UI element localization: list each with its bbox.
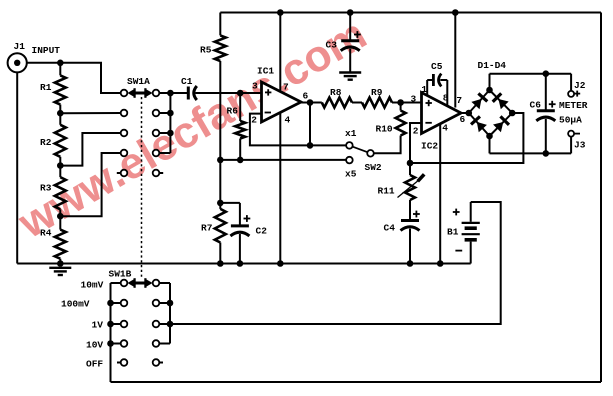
svg-text:100mV: 100mV (61, 299, 90, 310)
node R3-R4 (57, 213, 64, 220)
svg-text:OFF: OFF (86, 359, 103, 370)
wire top DC line (490, 73, 572, 75)
wire out down (309, 103, 311, 146)
wire IC2 pin4 (439, 124, 441, 264)
switch SW1A (117, 76, 174, 176)
wire IC1 pin4 (279, 113, 281, 264)
switch SW2 common (365, 150, 382, 173)
wire R8-R9 (352, 102, 362, 104)
wire battery bottom (470, 242, 472, 264)
svg-text:B1: B1 (447, 227, 459, 238)
svg-text:C6: C6 (530, 100, 542, 111)
diode D1 (471, 93, 487, 109)
svg-text:C3: C3 (326, 40, 338, 51)
node C2 rail (237, 260, 244, 267)
wire C2 down (239, 234, 241, 264)
svg-text:10mV: 10mV (81, 280, 104, 291)
wire tap3 (60, 133, 120, 166)
svg-text:R11: R11 (378, 186, 395, 197)
svg-text:2: 2 (251, 115, 257, 126)
wire bottom DC line (490, 152, 572, 154)
wire IC1 pin2 loop (250, 114, 310, 146)
switch SW1B (107, 269, 173, 383)
node R2-R3 (57, 162, 64, 169)
node R6 bottom (237, 157, 244, 164)
wire IC2 pin2 loop (410, 123, 422, 163)
ground divider (49, 268, 71, 275)
wire tap1 (60, 63, 120, 93)
svg-text:3: 3 (411, 94, 417, 105)
label 10mV (81, 280, 104, 291)
mechanical link dashed (141, 97, 143, 277)
svg-text:C1: C1 (181, 76, 193, 87)
resistor R2 (40, 113, 66, 165)
resistor R3 (40, 166, 66, 217)
node bridge left (466, 110, 473, 117)
resistor R11 (378, 163, 416, 200)
wire C4 down (409, 229, 411, 264)
node R10 top (397, 99, 404, 106)
node IC1 out (307, 99, 314, 106)
op-amp IC2 (411, 84, 466, 152)
wire IC1 pin7 (279, 13, 281, 92)
svg-text:R5: R5 (200, 45, 212, 56)
svg-text:METER: METER (559, 100, 588, 111)
svg-text:R9: R9 (371, 87, 383, 98)
diode bridge D1-D4 (469, 60, 512, 136)
svg-text:INPUT: INPUT (32, 45, 61, 56)
connector J1 (8, 41, 61, 72)
node bridge top (486, 87, 493, 94)
label 10V (86, 340, 103, 351)
wire C3 top (349, 13, 351, 41)
svg-text:R4: R4 (40, 228, 52, 239)
watermark www.elecfans.com (12, 12, 374, 246)
wire x5 line (220, 159, 346, 161)
resistor R6 (227, 93, 246, 160)
svg-text:SW1A: SW1A (127, 76, 150, 87)
resistor R8 (322, 87, 352, 108)
label 1V (92, 320, 104, 331)
svg-text:SW2: SW2 (365, 162, 382, 173)
svg-text:J3: J3 (574, 140, 586, 151)
capacitor C5 (427, 61, 447, 106)
svg-text:R2: R2 (40, 137, 52, 148)
switch SW2 x1 contact (345, 128, 357, 149)
switch SW2 x5 contact (345, 157, 357, 180)
node rail pin7 IC1 (277, 9, 284, 16)
svg-text:4: 4 (285, 115, 291, 126)
wire tap2 (60, 112, 120, 114)
wire fb line (410, 113, 523, 163)
svg-text:2: 2 (413, 126, 419, 137)
label 100mV (61, 299, 90, 310)
terminal J3 (568, 131, 586, 151)
svg-text:IC1: IC1 (257, 66, 274, 77)
resistor R7 (201, 203, 226, 264)
svg-text:x5: x5 (345, 169, 357, 180)
resistor R5 (200, 13, 226, 160)
wire top rail (220, 12, 601, 14)
terminal J2 (568, 80, 586, 97)
resistor R10 (376, 103, 406, 136)
label OFF (86, 359, 103, 370)
wire J1 shield down (16, 72, 18, 263)
node bridge bottom (486, 133, 493, 140)
diode D4 (493, 116, 509, 132)
svg-text:6: 6 (303, 91, 309, 102)
wire J2 drop (570, 74, 572, 91)
wire IC1 output (301, 102, 322, 104)
diode D3 (471, 116, 487, 132)
wire IC2 out to bridge (461, 112, 469, 114)
capacitor C6 (530, 74, 556, 154)
resistor R4 (40, 216, 66, 263)
svg-text:R10: R10 (376, 124, 393, 135)
node input R6 (237, 90, 244, 97)
capacitor C3 (326, 31, 361, 51)
wire R11 to C4 (409, 200, 411, 221)
node pin2 R11 (407, 160, 414, 167)
wire C1 to IC1 in (195, 92, 261, 94)
node C4 rail (407, 260, 414, 267)
wire SW2 to R10 (374, 136, 401, 154)
wire R5R7 mid (219, 160, 221, 203)
node C6 bottom (543, 150, 550, 157)
svg-text:SW1B: SW1B (109, 269, 132, 280)
node IC2 pin4 rail (437, 260, 444, 267)
resistor R1 (40, 63, 66, 113)
node J1-R1 (57, 60, 64, 67)
wire C2 branch (220, 203, 240, 226)
wire right power line (600, 13, 602, 383)
node R1-R2 (57, 110, 64, 117)
node rail pin7 IC2 (452, 9, 459, 16)
SW1A wiper arrow (127, 88, 152, 98)
wire bottom power line (111, 381, 602, 383)
svg-text:3: 3 (252, 81, 258, 92)
SW1B wiper arrow (127, 278, 152, 288)
node rail C3 (347, 9, 354, 16)
R11 arrow (398, 174, 425, 197)
capacitor C2 (230, 215, 267, 236)
svg-text:R8: R8 (330, 87, 342, 98)
wire J3 drop (570, 137, 572, 154)
node R7-C2 (217, 200, 224, 207)
svg-text:C5: C5 (431, 61, 443, 72)
svg-text:J1: J1 (14, 41, 26, 52)
svg-text:C4: C4 (384, 223, 396, 234)
label METER (559, 100, 588, 125)
svg-text:IC2: IC2 (421, 141, 438, 152)
wire IC2 pin7 (454, 13, 456, 108)
svg-text:R7: R7 (201, 223, 213, 234)
svg-text:1V: 1V (92, 320, 104, 331)
node bridge right (509, 110, 516, 117)
svg-text:4: 4 (442, 123, 448, 134)
wire battery plus loop (170, 202, 501, 324)
ground C3 (339, 73, 361, 80)
wire bridge top up (489, 74, 491, 90)
battery B1 (447, 209, 480, 251)
svg-text:10V: 10V (86, 340, 103, 351)
node feedback x1 (307, 142, 314, 149)
wire tap4 (60, 153, 120, 216)
svg-text:x1: x1 (345, 128, 357, 139)
svg-text:R3: R3 (40, 183, 52, 194)
node IC1 pin4 rail (277, 260, 284, 267)
svg-text:7: 7 (283, 82, 289, 93)
resistor R9 (362, 87, 392, 108)
node rail-ground (57, 260, 64, 267)
capacitor C4 (384, 211, 420, 234)
wire bridge bottom down (489, 136, 491, 153)
op-amp IC1 (251, 66, 308, 126)
wire SW1A to C1 (170, 92, 187, 94)
svg-text:7: 7 (456, 95, 462, 106)
SW2 wiper (352, 147, 367, 153)
svg-text:C2: C2 (256, 226, 268, 237)
svg-text:6: 6 (460, 114, 466, 125)
svg-text:J2: J2 (574, 80, 586, 91)
capacitor C1 (181, 76, 197, 100)
svg-text:50µA: 50µA (559, 115, 582, 126)
svg-text:D1-D4: D1-D4 (478, 60, 507, 71)
svg-text:R6: R6 (227, 106, 239, 117)
node R7 rail (217, 260, 224, 267)
node R5-R7-R6 (217, 157, 224, 164)
svg-text:R1: R1 (40, 82, 52, 93)
wire bottom rail (17, 263, 471, 265)
wire x1 line (310, 144, 346, 146)
node C6 top (543, 70, 550, 77)
diode D2 (493, 93, 509, 109)
wire C3 down (349, 49, 351, 73)
wire J1 to divider (27, 62, 61, 64)
wire battery top (470, 202, 472, 222)
wire R9 to IC2 (392, 102, 422, 104)
